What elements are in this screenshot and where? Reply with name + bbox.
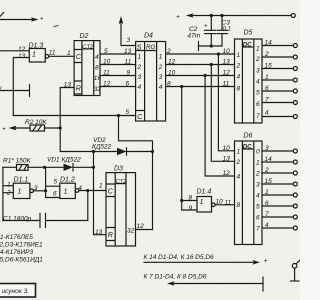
svg-text:2: 2 [236, 63, 241, 70]
svg-text:5: 5 [256, 204, 260, 211]
figure stamp [0, 284, 36, 298]
svg-text:8: 8 [237, 202, 241, 209]
svg-text:D6: D6 [244, 133, 253, 140]
svg-text:9: 9 [189, 205, 193, 212]
wire: D1.2 output to D3 C [79, 189, 106, 192]
register D4 [136, 33, 166, 122]
svg-text:2: 2 [264, 167, 269, 174]
wire: D5 out4 [262, 74, 297, 82]
svg-text:10: 10 [103, 59, 111, 66]
svg-text:5: 5 [54, 178, 58, 185]
wire: D2 out 4 to D4 in 1 [100, 48, 136, 55]
wire: D1.3 output to D2 C [49, 50, 74, 57]
svg-text:2: 2 [264, 51, 269, 58]
wire: D5 out1 [262, 40, 297, 48]
node: top supply rail to terminal [176, 13, 295, 20]
svg-text:12: 12 [223, 70, 231, 77]
svg-text:4: 4 [237, 174, 241, 181]
svg-text:2: 2 [137, 64, 142, 71]
svg-text:3: 3 [138, 74, 142, 81]
svg-text:4: 4 [265, 222, 269, 229]
svg-text:исунок 3.: исунок 3. [2, 288, 30, 295]
svg-text:10: 10 [168, 70, 176, 77]
counter D3 [95, 166, 136, 247]
svg-text:5: 5 [104, 48, 108, 55]
svg-text:VD1 КД522: VD1 КД522 [47, 157, 81, 164]
svg-text:1: 1 [32, 52, 36, 59]
svg-text:13: 13 [64, 81, 72, 88]
svg-text:15: 15 [265, 63, 273, 70]
wire: D4 out3 to D5 in4 [166, 70, 235, 78]
svg-text:10: 10 [223, 145, 231, 152]
wire: drop to D6 in2 [211, 65, 234, 162]
decoder D5 [235, 30, 263, 124]
svg-text:D1.2: D1.2 [60, 177, 75, 184]
svg-text:7: 7 [256, 226, 260, 233]
svg-text:1: 1 [256, 46, 260, 53]
wire: D6 out7 [262, 222, 297, 230]
wire: D4 out1 to D5 in1 [166, 48, 235, 56]
sensor plate input [0, 85, 30, 97]
svg-text:2: 2 [236, 159, 241, 166]
svg-text:13: 13 [223, 59, 231, 66]
svg-text:0.1: 0.1 [223, 27, 231, 33]
svg-text:14: 14 [265, 40, 273, 47]
svg-text:4: 4 [237, 74, 241, 81]
svg-text:1: 1 [265, 74, 269, 81]
svg-text:2,D3-К176ИЕ1: 2,D3-К176ИЕ1 [0, 241, 43, 248]
svg-text:2: 2 [255, 56, 260, 63]
wire: clock staircase to D3 output [119, 116, 153, 230]
svg-text:6: 6 [256, 101, 260, 108]
svg-text:3: 3 [256, 182, 260, 189]
svg-text:С1 1800р: С1 1800р [3, 216, 32, 223]
svg-text:12: 12 [137, 223, 145, 230]
svg-text:4: 4 [265, 110, 269, 117]
svg-text:11: 11 [225, 200, 232, 207]
wire: D2 out 32 to D4 in 4 [100, 81, 136, 88]
svg-text:8: 8 [237, 86, 241, 93]
resistor R1 [3, 158, 46, 171]
diode VD1 [45, 157, 96, 172]
gate D1.2 [53, 177, 82, 199]
svg-text:D2: D2 [80, 33, 89, 40]
svg-text:11: 11 [125, 59, 132, 66]
svg-text:15: 15 [265, 178, 273, 185]
svg-text:D1.1: D1.1 [14, 177, 29, 184]
svg-text:D4: D4 [144, 33, 153, 40]
svg-text:13: 13 [95, 229, 103, 236]
wire: top-left input arrow [0, 13, 58, 27]
svg-text:13: 13 [124, 48, 132, 55]
svg-text:D5: D5 [244, 30, 253, 37]
svg-text:К 7 D1-D4, К 8 D5,D6: К 7 D1-D4, К 8 D5,D6 [144, 274, 207, 281]
svg-text:14: 14 [265, 156, 273, 163]
svg-text:8: 8 [189, 195, 193, 202]
svg-text:+: + [40, 17, 44, 23]
wire: D5 out6 [262, 97, 297, 105]
wire: D6 out4 [262, 189, 297, 197]
svg-text:4: 4 [95, 54, 99, 61]
svg-text:+: + [204, 24, 208, 30]
svg-text:3: 3 [265, 145, 269, 152]
wire: D1.1 inputs tied [3, 167, 13, 220]
svg-text:7: 7 [265, 97, 269, 104]
svg-text:6: 6 [265, 200, 269, 207]
wire: D2 out 8 to D4 in 2 [100, 59, 136, 66]
svg-text:1: 1 [237, 52, 241, 59]
wire: D3 output 32 to feedback [136, 223, 153, 230]
svg-text:R: R [76, 86, 81, 93]
svg-text:11: 11 [49, 50, 56, 57]
svg-text:3: 3 [256, 68, 260, 75]
svg-text:3: 3 [127, 37, 131, 44]
svg-text:RG: RG [146, 44, 156, 51]
capacitor C3 [217, 16, 231, 47]
svg-text:4: 4 [159, 84, 163, 91]
svg-text:2: 2 [166, 48, 171, 55]
svg-text:2: 2 [158, 64, 163, 71]
svg-text:8: 8 [167, 81, 171, 88]
wire: D5 out3 [262, 63, 297, 71]
annotation: power arrow 1 [144, 254, 268, 265]
svg-text:1: 1 [7, 182, 11, 189]
wire: drop to D6 in4 [205, 76, 234, 177]
svg-text:12: 12 [223, 170, 231, 177]
svg-text:11: 11 [103, 70, 110, 77]
wire: D1.3 input 12 from edge [0, 50, 29, 52]
svg-text:9: 9 [127, 70, 131, 77]
wire: D5 out7 [262, 110, 297, 119]
svg-text:C3: C3 [222, 20, 231, 27]
svg-text:8: 8 [95, 64, 99, 71]
wire: D6 out5 [262, 200, 297, 208]
svg-text:К 14 D1-D4, К 16 D5,D6: К 14 D1-D4, К 16 D5,D6 [144, 254, 215, 261]
parts list text [0, 234, 43, 264]
svg-text:D1.4: D1.4 [197, 189, 212, 196]
diode VD2 [60, 128, 154, 155]
svg-text:13: 13 [223, 155, 231, 162]
wire: drop to D6 in1 [218, 54, 234, 151]
wire: D4 out2 to D5 in2 [166, 59, 235, 67]
wire: common rail under C2 C3 with end bar [199, 42, 223, 51]
svg-text:5: 5 [126, 109, 130, 116]
svg-text:1: 1 [99, 183, 103, 190]
decoder D6 [235, 133, 263, 245]
svg-text:1: 1 [200, 199, 204, 206]
svg-text:12: 12 [168, 59, 176, 66]
svg-text:7: 7 [265, 211, 269, 218]
svg-text:+: + [2, 126, 6, 133]
svg-text:3: 3 [159, 74, 163, 81]
svg-text:12: 12 [103, 81, 111, 88]
svg-text:+: + [264, 258, 268, 265]
svg-text:1: 1 [237, 149, 241, 156]
svg-text:4-К176ИР3: 4-К176ИР3 [0, 249, 33, 256]
resistor R2 [2, 119, 62, 133]
wire: D4 C pin clock rail [13, 109, 135, 117]
svg-text:R1* 150K: R1* 150K [3, 158, 31, 165]
wire: D1.3 input 13 from clock rail [13, 58, 29, 116]
wire: D2 out 16 to D4 in 3 [100, 70, 136, 77]
wire: D5 out2 [262, 51, 297, 59]
gate D1.3 [18, 43, 56, 63]
svg-text:1: 1 [256, 160, 260, 167]
capacitor C2 [188, 16, 216, 47]
wire: D2 R input from R2 node [60, 81, 74, 127]
capacitor C1 [3, 191, 88, 228]
svg-text:+: + [176, 14, 180, 21]
svg-text:0: 0 [256, 149, 260, 156]
svg-text:4: 4 [256, 193, 260, 200]
annotation: power arrow 2 [144, 274, 264, 292]
svg-text:10: 10 [223, 48, 231, 55]
svg-text:1: 1 [67, 50, 71, 57]
svg-text:1: 1 [265, 189, 269, 196]
svg-text:КД522: КД522 [92, 144, 112, 151]
svg-text:5: 5 [256, 90, 260, 97]
wire: D1.1 out to D1.2 in [34, 167, 60, 197]
svg-text:13: 13 [18, 53, 26, 60]
wire: D6 out0 [262, 145, 297, 153]
gate D1.4 [189, 189, 216, 213]
svg-text:1-К176ЛЕ5: 1-К176ЛЕ5 [0, 234, 33, 241]
svg-text:1: 1 [138, 54, 142, 61]
wire: D1.4 output to D6 in8 [215, 199, 234, 207]
svg-text:11: 11 [223, 81, 230, 88]
svg-text:D3: D3 [114, 166, 123, 173]
wire: D4 out4 to D5 in8 [166, 81, 235, 89]
svg-text:6: 6 [265, 85, 269, 92]
svg-text:10: 10 [216, 199, 224, 206]
gate D1.1 [6, 177, 38, 199]
svg-text:6: 6 [126, 81, 130, 88]
svg-text:R: R [108, 232, 113, 239]
svg-text:1: 1 [159, 54, 163, 61]
wire: D4 S pin with up arrow [119, 16, 136, 46]
wire: D6 out6 [262, 211, 297, 219]
svg-text:S: S [137, 44, 142, 51]
svg-text:6: 6 [256, 215, 260, 222]
wire: D5 out5 [262, 85, 297, 93]
wire: reset vertical to D3 R [94, 152, 107, 235]
svg-text:47m: 47m [188, 33, 201, 40]
svg-text:1: 1 [64, 189, 68, 196]
svg-text:7: 7 [256, 113, 260, 120]
counter D2 [74, 33, 101, 96]
wire: D6 out3 [262, 178, 297, 186]
svg-text:1: 1 [18, 189, 22, 196]
wire: D6 out1 [262, 156, 297, 164]
svg-text:32: 32 [127, 228, 135, 235]
svg-text:6: 6 [53, 190, 57, 197]
D6 input pin labels [223, 145, 231, 177]
svg-text:4: 4 [256, 79, 260, 86]
svg-text:2: 2 [255, 171, 260, 178]
svg-text:5,D6-К561ИД1: 5,D6-К561ИД1 [0, 257, 43, 264]
wire: D6 out2 [262, 167, 297, 175]
connector jack symbol [291, 260, 301, 281]
svg-text:4: 4 [138, 84, 142, 91]
wire: drop to D1.4 inputs [182, 87, 197, 211]
